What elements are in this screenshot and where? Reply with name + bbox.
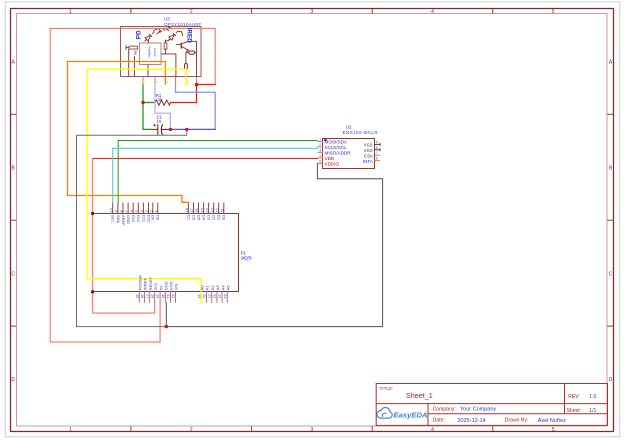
svg-text:AREF: AREF — [121, 215, 126, 226]
svg-text:31: 31 — [166, 294, 170, 298]
svg-text:D12: D12 — [136, 215, 141, 223]
svg-text:D13: D13 — [131, 215, 136, 223]
svg-text:ENS160-BGLR: ENS160-BGLR — [343, 130, 378, 135]
U3 pins 1-6 stubs — [143, 77, 197, 86]
junction dot C1 right — [169, 128, 172, 131]
svg-text:5: 5 — [319, 160, 321, 164]
EasyEDA logo — [377, 408, 428, 420]
wire: red branch U3 Vcc pin to R1 right — [196, 85, 198, 103]
U3 internal resistor pill horizontal — [186, 51, 196, 54]
U3 designator labels — [164, 16, 201, 27]
svg-text:13: 13 — [210, 208, 214, 212]
sensor U2 ENS160-BGLR body — [323, 139, 375, 169]
svg-text:26: 26 — [140, 294, 144, 298]
svg-text:1: 1 — [144, 81, 146, 84]
U2 right pin stubs — [375, 143, 381, 161]
svg-text:GND: GND — [126, 215, 131, 224]
svg-text:8: 8 — [376, 146, 378, 150]
svg-text:Date:: Date: — [433, 418, 445, 424]
svg-text:D4: D4 — [202, 215, 207, 221]
svg-text:D11: D11 — [141, 215, 146, 223]
wire: black net gnd rail to U2 VDDIO — [166, 163, 382, 326]
svg-text:4: 4 — [177, 81, 179, 84]
svg-text:22: 22 — [213, 294, 217, 298]
svg-text:29: 29 — [156, 294, 160, 298]
svg-text:A: A — [609, 60, 613, 66]
wire: red segment to U3 Vcc dot — [197, 84, 216, 86]
svg-text:D3: D3 — [207, 215, 212, 221]
svg-text:D0: D0 — [222, 215, 227, 221]
C1 labels — [157, 114, 163, 123]
svg-text:Amplifier: Amplifier — [147, 46, 151, 58]
junction dot U3 Vcc — [195, 83, 198, 86]
U2 right pin names — [363, 143, 373, 165]
resistor R1 body — [155, 100, 171, 105]
svg-text:D7: D7 — [186, 215, 191, 221]
svg-text:VSS: VSS — [364, 143, 373, 148]
svg-text:Sheet_1: Sheet_1 — [406, 391, 433, 400]
svg-text:D2: D2 — [212, 215, 217, 221]
svg-text:A: A — [12, 60, 16, 66]
wire: blue net U3 pin 4 upper run — [176, 85, 216, 129]
junction dot gnd rail — [165, 325, 168, 328]
svg-text:2: 2 — [190, 427, 193, 433]
U3 internal resistor vertical 2 to Vo — [185, 50, 189, 76]
svg-text:16: 16 — [195, 208, 199, 212]
svg-text:11: 11 — [221, 209, 225, 213]
svg-text:6: 6 — [130, 210, 134, 212]
P1 top pin texts — [109, 208, 226, 226]
svg-text:C: C — [11, 271, 15, 277]
svg-text:5: 5 — [552, 9, 555, 15]
svg-text:8: 8 — [120, 210, 124, 212]
svg-text:5: 5 — [188, 81, 190, 84]
U3 photodiode — [145, 28, 166, 41]
U3 IRED led — [166, 27, 183, 41]
title block — [376, 384, 607, 426]
svg-text:SCLK/SCL: SCLK/SCL — [325, 145, 348, 150]
svg-text:VDD: VDD — [325, 156, 335, 161]
wire: 3V3 net vertical and bottom run — [93, 159, 155, 314]
svg-text:12: 12 — [215, 208, 219, 212]
svg-text:3: 3 — [167, 81, 169, 84]
svg-text:REV:: REV: — [568, 394, 579, 400]
svg-text:D9: D9 — [151, 215, 156, 221]
svg-text:VIN: VIN — [174, 284, 179, 291]
svg-text:4: 4 — [431, 9, 434, 15]
svg-text:PD: PD — [135, 30, 142, 39]
R1 labels — [156, 93, 163, 102]
wire: yellow net U3 Vo to Arduino A0 — [87, 69, 201, 303]
svg-text:1: 1 — [69, 9, 72, 15]
wire: 3V3 net (red) U2 VDD to Arduino 3V3 — [93, 158, 318, 160]
junction dot gnd tap — [185, 128, 188, 131]
svg-text:1: 1 — [155, 210, 159, 212]
svg-text:27: 27 — [145, 294, 149, 298]
P1 bottom pin stubs — [139, 292, 227, 303]
svg-text:B: B — [609, 165, 613, 171]
svg-text:D: D — [11, 377, 15, 383]
svg-text:2: 2 — [150, 210, 154, 212]
P1 bottom pin texts — [135, 275, 231, 298]
svg-text:MISO/ADDR: MISO/ADDR — [325, 151, 352, 156]
wire: green net R1 left / C1 left / U3 pin 1 — [143, 85, 151, 129]
svg-text:Sheet:: Sheet: — [567, 408, 581, 414]
svg-text:1: 1 — [319, 138, 321, 142]
U3 internal resistor left — [126, 45, 138, 76]
svg-text:D8: D8 — [156, 215, 161, 221]
svg-text:INTn: INTn — [363, 159, 373, 164]
module P1 UNO_R3 body — [93, 214, 239, 292]
svg-text:C: C — [609, 271, 613, 277]
wire: blue net to C1 right — [171, 128, 216, 130]
svg-text:CSn: CSn — [364, 154, 373, 159]
svg-text:5: 5 — [135, 210, 139, 212]
svg-text:25: 25 — [135, 294, 139, 298]
wire: orange net U3 LED to Arduino D7 — [68, 62, 189, 203]
svg-text:2: 2 — [156, 81, 158, 84]
svg-text:D5: D5 — [196, 215, 201, 221]
U2 left pin names — [325, 140, 352, 167]
U2 left pin numbers — [319, 138, 321, 164]
svg-text:1.0: 1.0 — [589, 394, 596, 400]
U2 left pin stubs — [317, 141, 323, 163]
junction dot R1 left — [141, 101, 144, 104]
svg-text:Drawn By:: Drawn By: — [505, 418, 529, 424]
svg-text:18: 18 — [185, 208, 189, 212]
svg-text:Company:: Company: — [433, 406, 456, 412]
U2 pin1 marker — [324, 139, 327, 141]
wire: R1 right lead — [171, 102, 197, 104]
junction dot P1 corner top — [91, 212, 94, 215]
border row ticks — [10, 113, 16, 115]
wire: cyan net Arduino SCL to U2 SCLK/SCL — [113, 148, 318, 202]
U3 pin numbers — [144, 81, 200, 84]
svg-text:GP2Y1010AU0F: GP2Y1010AU0F — [164, 22, 201, 27]
svg-text:D10: D10 — [146, 215, 151, 223]
U3 amplifier text — [147, 46, 157, 58]
svg-text:2: 2 — [319, 143, 321, 147]
junction dot P1 corner bottom — [91, 290, 94, 293]
svg-text:6: 6 — [198, 81, 200, 84]
svg-text:2: 2 — [190, 9, 193, 15]
svg-text:24: 24 — [223, 294, 227, 298]
svg-text:17: 17 — [190, 208, 194, 212]
svg-text:3V3: 3V3 — [153, 282, 158, 290]
svg-text:6: 6 — [376, 157, 378, 161]
U2 designator labels — [343, 125, 378, 135]
svg-text:30: 30 — [161, 294, 165, 298]
svg-text:10: 10 — [109, 208, 113, 212]
svg-text:Circuit: Circuit — [153, 48, 157, 57]
svg-text:Axel Nuñez: Axel Nuñez — [538, 418, 566, 424]
svg-text:19: 19 — [197, 294, 201, 298]
svg-text:MOSI/SDA: MOSI/SDA — [325, 140, 348, 145]
svg-text:5V: 5V — [158, 285, 163, 290]
svg-text:14: 14 — [205, 208, 209, 212]
U3 internal resistor vertical 1 — [161, 40, 176, 77]
svg-text:3: 3 — [311, 9, 314, 15]
P1 designator labels — [241, 250, 253, 260]
svg-text:SCL: SCL — [111, 215, 116, 224]
capacitor C1 body — [151, 124, 171, 135]
svg-text:UNO_R3: UNO_R3 — [241, 256, 253, 261]
wire: black branch Arduino GND pin — [165, 303, 167, 327]
svg-text:1/1: 1/1 — [589, 408, 596, 414]
svg-text:7: 7 — [376, 151, 378, 155]
svg-text:Your Company: Your Company — [460, 407, 496, 413]
svg-text:Rθ: Rθ — [133, 51, 137, 56]
U3 collector wire to Vcc pin — [189, 41, 197, 76]
svg-text:20: 20 — [202, 294, 206, 298]
svg-text:3: 3 — [311, 427, 314, 433]
svg-text:TITLE:: TITLE: — [380, 386, 394, 391]
svg-text:U2: U2 — [346, 125, 352, 130]
svg-text:4: 4 — [140, 210, 144, 212]
wire: black net C1 minus to gnd rail — [77, 129, 187, 326]
svg-text:D6: D6 — [191, 215, 196, 221]
svg-text:SDA: SDA — [116, 215, 121, 224]
svg-text:2025-12-14: 2025-12-14 — [458, 418, 486, 424]
svg-text:1: 1 — [69, 427, 72, 433]
U3 transistor Q — [176, 41, 189, 51]
svg-text:U3: U3 — [164, 16, 170, 21]
op U3 GP2Y1010AU0F dust sensor body — [121, 27, 202, 77]
svg-text:4: 4 — [431, 427, 434, 433]
svg-text:9: 9 — [115, 210, 119, 212]
wire: green lead R1 left — [143, 102, 155, 104]
border column ticks — [130, 8, 132, 13]
svg-text:B: B — [12, 165, 16, 171]
svg-text:A5: A5 — [226, 285, 231, 291]
svg-text:5: 5 — [552, 427, 555, 433]
svg-text:7: 7 — [125, 210, 129, 212]
svg-text:VSS: VSS — [364, 148, 373, 153]
svg-text:9: 9 — [376, 140, 378, 144]
svg-text:15: 15 — [200, 208, 204, 212]
svg-text:23: 23 — [218, 294, 222, 298]
svg-text:IRED: IRED — [186, 28, 193, 44]
wire: 5V net (red) Arduino 5V to U3 Vcc/R1 — [50, 28, 215, 342]
svg-text:4: 4 — [319, 154, 321, 158]
wire: blue staple branch from U3 pin 2 — [155, 85, 170, 130]
svg-text:21: 21 — [207, 294, 211, 298]
svg-text:28: 28 — [150, 294, 154, 298]
P1 top pin stubs — [113, 203, 224, 214]
svg-text:VDDIO: VDDIO — [325, 162, 340, 167]
svg-text:3: 3 — [319, 149, 321, 153]
U2 right pin numbers — [376, 140, 378, 160]
svg-text:D1: D1 — [217, 215, 222, 221]
svg-text:1u: 1u — [157, 119, 162, 124]
svg-text:32: 32 — [171, 294, 175, 298]
svg-text:D: D — [609, 377, 613, 383]
U3 amplifier circuit block — [134, 41, 161, 77]
svg-text:EasyEDA: EasyEDA — [393, 411, 427, 420]
wire: green net Arduino SDA to U2 MOSI/SDA — [118, 141, 317, 203]
